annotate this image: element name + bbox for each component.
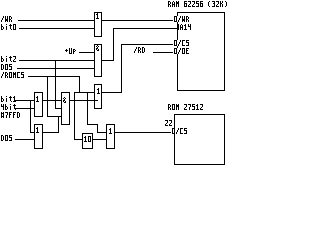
wire D4 out to D7.2 — [70, 100, 98, 101]
wire bit2 to D2.2 — [19, 60, 94, 61]
net DOS lower — [1, 135, 12, 141]
wire DOS to D5.2 — [15, 139, 34, 140]
wire DOS to D2.3 — [17, 68, 94, 69]
wire +Up to D2.1 — [79, 52, 94, 53]
net /RD — [134, 47, 145, 53]
RAM pin /WR — [173, 16, 189, 22]
gate D2 AND — [95, 45, 102, 77]
wire /WR to D1.1 — [18, 20, 94, 21]
net /WR — [1, 16, 12, 22]
gate D8 OR-1 — [107, 125, 115, 149]
gate D3 OR-1 — [35, 93, 43, 117]
net bit1 — [1, 96, 16, 102]
wire /ROMCS branch down — [74, 76, 94, 140]
net bit0 — [1, 24, 16, 30]
wire D6 out to D8.2 — [93, 139, 106, 140]
wire bit1 riser to D5.1 — [30, 100, 34, 133]
ROM D10 body — [175, 115, 225, 165]
gate D5 OR-1 — [35, 125, 43, 149]
RAM D9 body — [178, 13, 225, 91]
net 4bit — [1, 104, 16, 110]
wire /ROMCS — [28, 76, 79, 77]
wire D2 out to RAM A14 — [102, 28, 177, 61]
RAM pin A14 — [178, 24, 191, 30]
wire D7 out to RAM /CS — [102, 44, 177, 93]
net bit2 — [1, 56, 16, 62]
wire bit1 to D3.1 — [14, 100, 34, 101]
wire bit2 riser to D4.2 — [55, 60, 61, 109]
wire D8 out to ROM /CS — [115, 132, 174, 133]
ROM pin /CS — [171, 128, 187, 134]
net +Up — [65, 48, 76, 54]
wire /ROMCS to D5 out and D4.3 — [47, 76, 61, 132]
RAM D9 62256 title — [168, 1, 227, 7]
wire /RD to RAM /OE — [153, 52, 177, 53]
gate D7 OR-1 — [95, 85, 102, 109]
wire D5 out to /ROMCS riser — [43, 132, 59, 133]
ROM pin 22 label — [165, 120, 172, 126]
wire D1 out to RAM /WR — [102, 20, 177, 21]
gate D4 AND — [62, 93, 70, 125]
ROM D10 27512 title — [168, 104, 203, 110]
wire bit0 to D1.2 — [19, 28, 94, 29]
net DOS — [1, 64, 12, 70]
net /ROMCS — [1, 72, 24, 78]
wire branch to D8.1 — [87, 92, 106, 133]
wire D3 out to D4.1 — [43, 100, 61, 101]
RAM pin /CS — [173, 40, 189, 46]
gate D1 OR-1 — [95, 13, 102, 37]
gate D6 inverter 10 — [83, 134, 93, 149]
RAM pin /OE — [173, 48, 189, 54]
net #7FFD — [1, 112, 20, 118]
wire 4bit to D3.2 — [15, 108, 34, 109]
